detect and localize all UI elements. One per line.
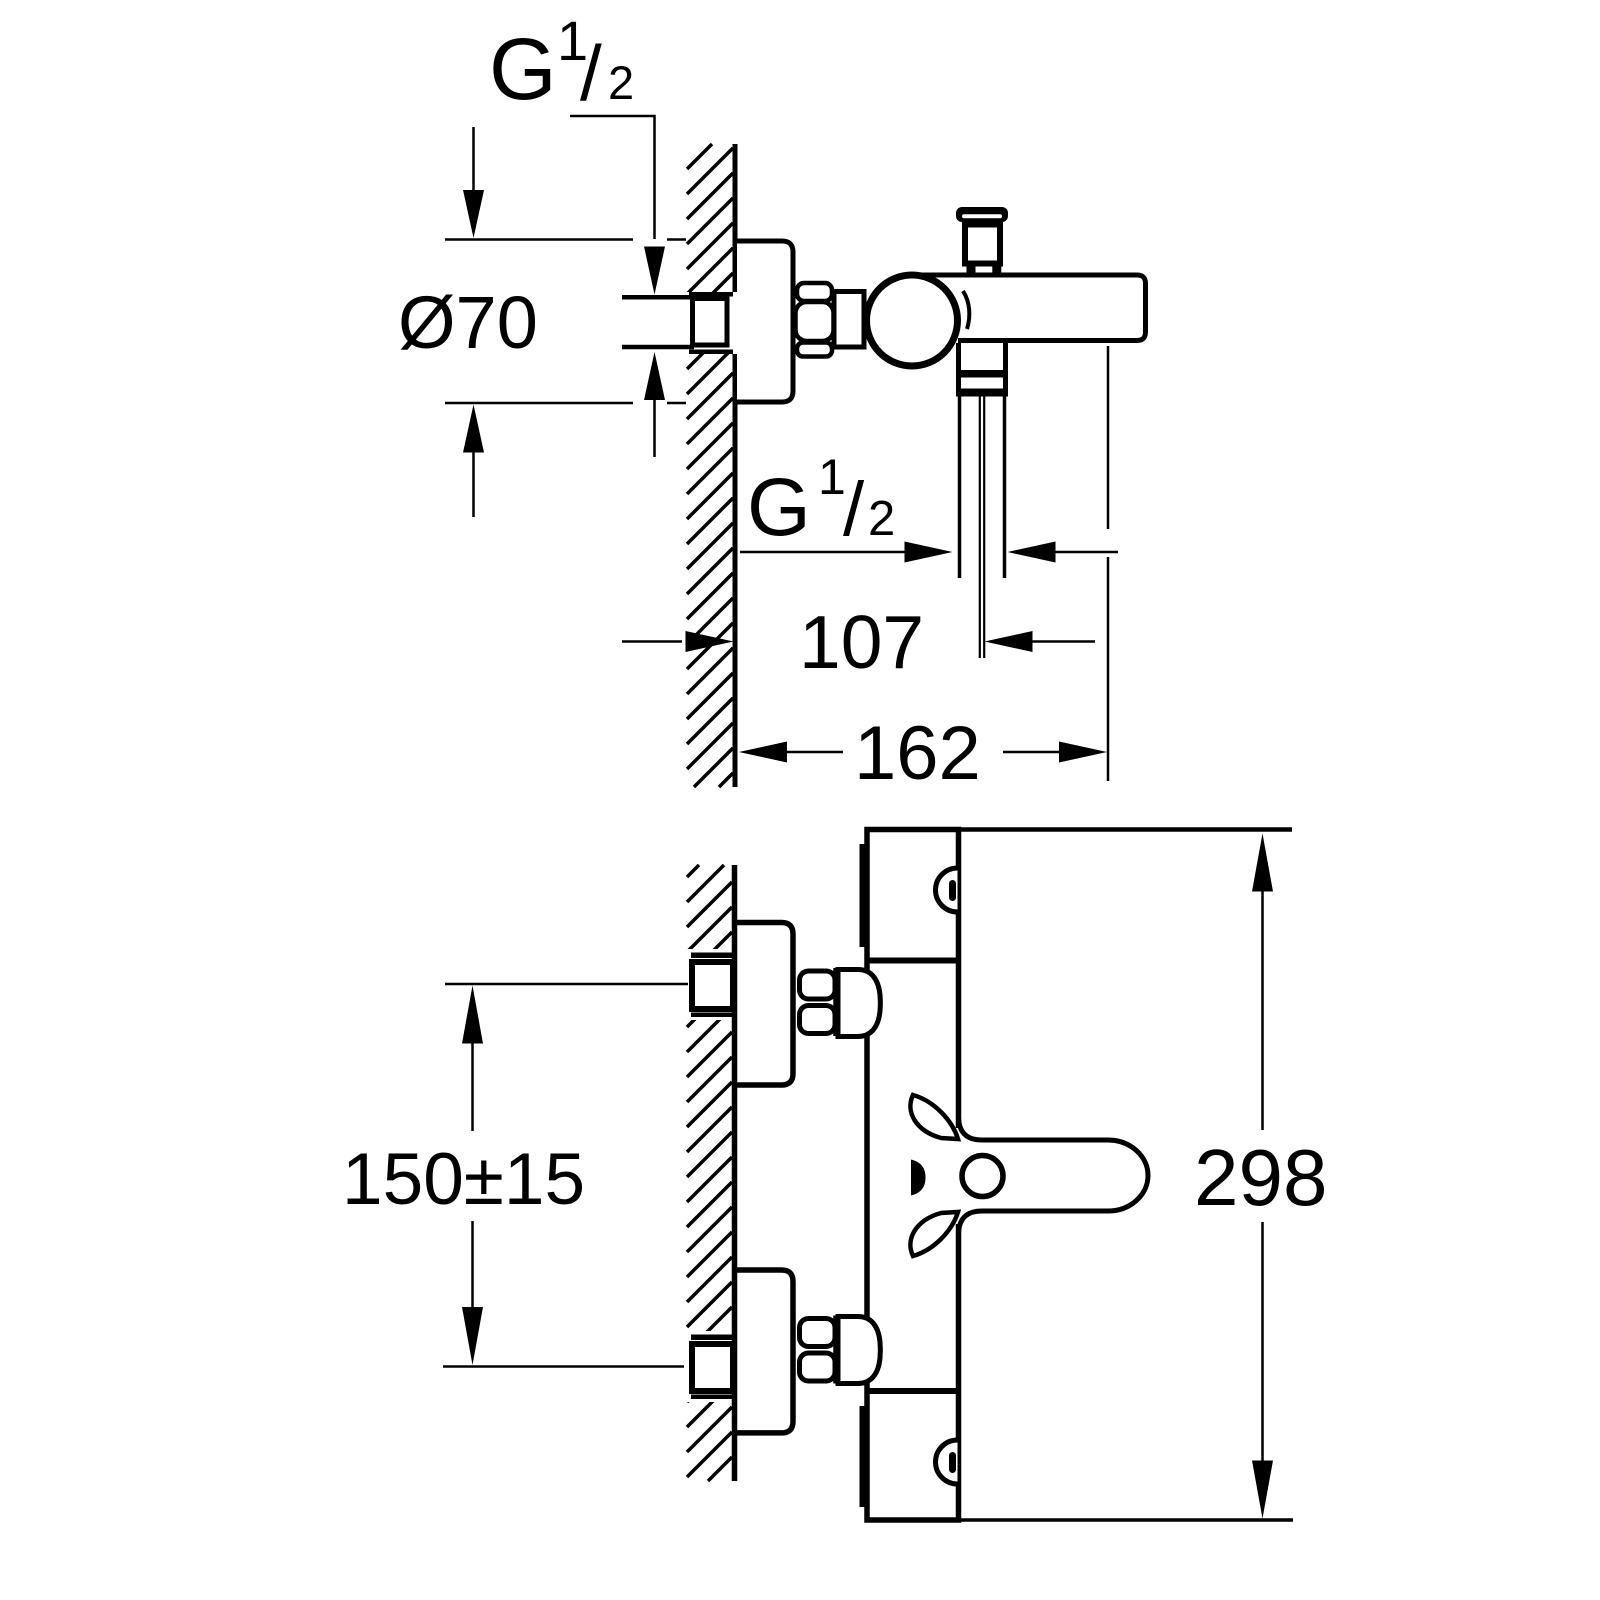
handle loop: [959, 1116, 1149, 1235]
svg-text:1: 1: [818, 449, 846, 505]
bottom hex nut: [800, 1319, 836, 1382]
upper petal: [910, 1095, 958, 1139]
bottom screw: [936, 1440, 958, 1484]
dim 150+-15 ext lines: [445, 983, 688, 986]
escutcheon top figure: [737, 241, 793, 402]
lower petal: [910, 1212, 958, 1256]
internal line top block: [866, 958, 961, 964]
wall hatching bottom: [687, 865, 732, 1481]
arrow at pipe bottom: [644, 352, 665, 400]
diverter knob stem: [967, 267, 976, 278]
dim 162: [739, 742, 787, 763]
top screw: [936, 868, 958, 912]
left protruding band top: [860, 844, 865, 947]
bottom union square fitting: [692, 1344, 733, 1391]
svg-text:162: 162: [854, 711, 981, 796]
spout body: [920, 275, 1146, 341]
svg-text:/: /: [843, 467, 865, 552]
svg-text:/: /: [580, 29, 602, 117]
dim 298 line+arrows: [1252, 834, 1273, 892]
top escutcheon: [736, 923, 793, 1086]
thermostat ball: [867, 275, 958, 366]
hatch gaps at unions: [686, 949, 733, 1020]
diverter knob cap: [956, 207, 1008, 222]
top union square fitting: [692, 962, 733, 1009]
svg-text:Ø70: Ø70: [398, 281, 538, 364]
hose centre lines: [979, 397, 981, 659]
svg-text:2: 2: [608, 56, 634, 109]
bottom escutcheon: [736, 1270, 793, 1433]
gap in body edge for handle: [952, 1128, 965, 1224]
internal line bottom block: [866, 1388, 961, 1394]
ball socket arc: [963, 291, 969, 329]
spout outlet extension line: [1107, 346, 1110, 529]
leader G1/2 top: [570, 116, 655, 239]
svg-text:298: 298: [1194, 1133, 1327, 1222]
adapter: [834, 292, 864, 348]
dim lines O70: [445, 238, 633, 241]
top union collar lines: [691, 953, 733, 959]
dim 298 ext lines: [958, 827, 1292, 832]
svg-text:2: 2: [868, 492, 895, 546]
handle screw circle: [962, 1156, 1003, 1197]
body slab: [867, 830, 959, 1521]
wall line bottom figure: [732, 865, 738, 1481]
nipple extension lines: [958, 397, 962, 579]
hex nut top figure: [796, 283, 834, 357]
diverter knob cylinder: [965, 225, 1000, 264]
O70 arrows: [472, 127, 475, 192]
svg-text:107: 107: [799, 600, 924, 684]
svg-text:G: G: [747, 462, 811, 553]
square union collar lines: [689, 292, 733, 297]
left protruding band bottom: [860, 1406, 865, 1507]
wall hatching top: [687, 144, 733, 787]
dim G1/2 outlet: [740, 551, 906, 554]
svg-text:150±15: 150±15: [342, 1139, 585, 1220]
outlet nipple: [956, 343, 961, 397]
top hex nut: [800, 971, 836, 1034]
supply pipe: [622, 292, 738, 354]
dim 150+-15 line+arrows: [462, 986, 483, 1044]
bottom inlet boss: [838, 1317, 880, 1384]
wall line top figure: [733, 144, 738, 787]
bottom union collar lines: [691, 1335, 733, 1341]
dim 107: [622, 640, 682, 643]
square union fitting: [693, 299, 728, 346]
top inlet boss: [838, 970, 880, 1037]
dark D mark: [911, 1160, 926, 1196]
svg-text:G: G: [489, 21, 557, 118]
